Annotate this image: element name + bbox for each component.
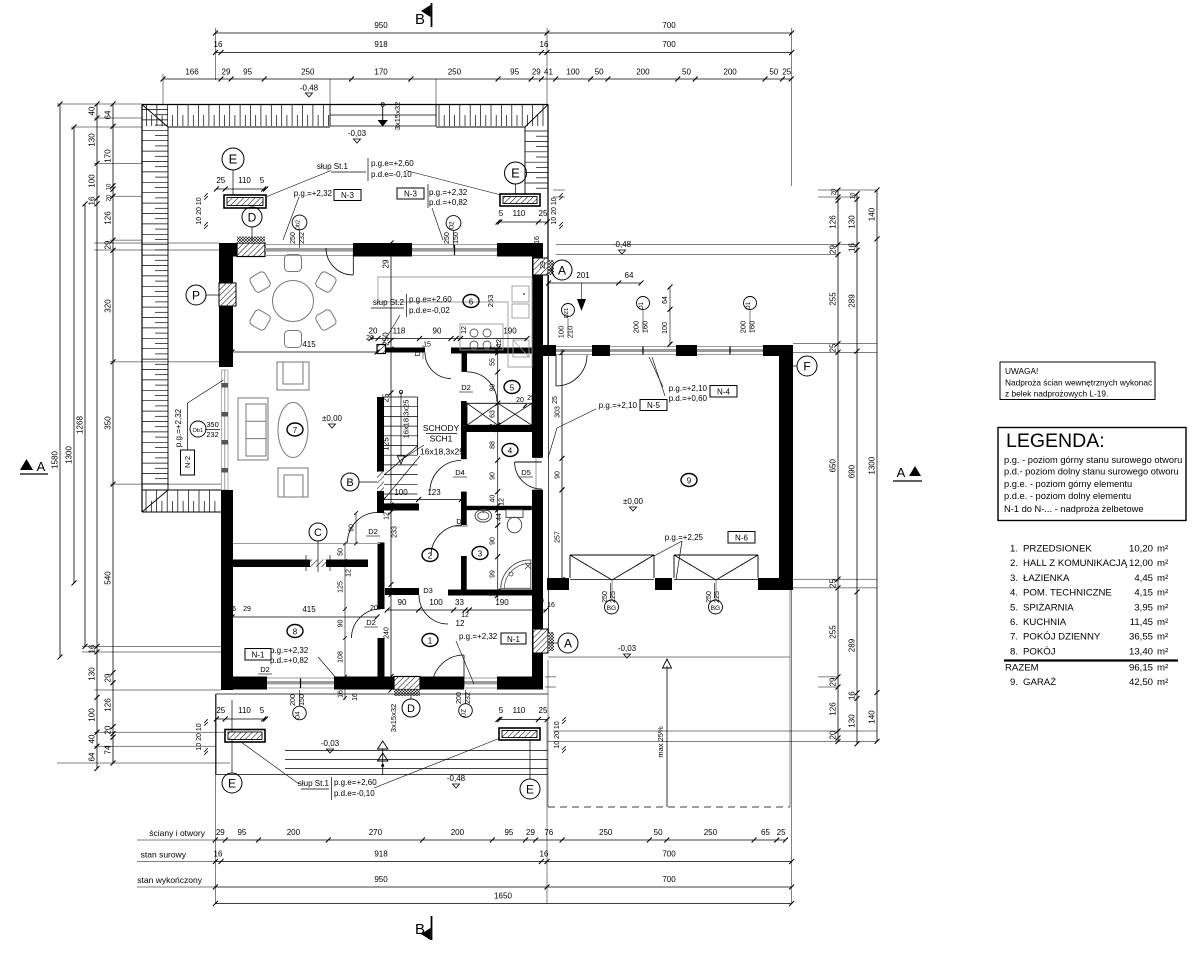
dims bottom-right pillar 5 110 25: [498, 719, 547, 721]
armchair north: [277, 362, 309, 390]
svg-text:250: 250: [444, 232, 451, 244]
axis marker C: [309, 523, 327, 541]
room label 8: [287, 625, 303, 638]
bathroom washbasin: [475, 510, 492, 523]
svg-text:16: 16: [214, 850, 223, 859]
svg-text:O4: O4: [296, 711, 302, 720]
crosshatch SE pillar: [548, 632, 554, 651]
svg-text:F: F: [803, 359, 810, 373]
svg-text:12: 12: [456, 619, 465, 628]
svg-text:90: 90: [490, 537, 497, 545]
svg-text:9.: 9.: [1010, 677, 1018, 688]
svg-text:250: 250: [290, 232, 297, 244]
svg-text:11,45: 11,45: [1130, 617, 1153, 628]
svg-text:E: E: [228, 776, 236, 790]
svg-text:m²: m²: [1157, 632, 1169, 643]
svg-text:stan surowy: stan surowy: [141, 850, 187, 860]
svg-text:25: 25: [539, 209, 548, 218]
svg-text:słup St.2: słup St.2: [373, 298, 405, 307]
svg-text:z belek nadprożowych L-19.: z belek nadprożowych L-19.: [1005, 389, 1108, 399]
svg-text:POKÓJ DZIENNY: POKÓJ DZIENNY: [1023, 632, 1101, 643]
extension lines top: [214, 28, 216, 80]
wall bathroom north: [466, 506, 532, 510]
svg-text:p.g.=+2,32: p.g.=+2,32: [429, 188, 468, 197]
svg-text:Db2: Db2: [296, 220, 302, 230]
svg-text:100: 100: [88, 708, 97, 722]
svg-text:40: 40: [490, 495, 497, 503]
kitchen cooktop: [460, 324, 503, 350]
svg-text:126: 126: [104, 698, 113, 712]
svg-text:29: 29: [338, 678, 345, 686]
svg-text:DZ1: DZ1: [564, 308, 570, 318]
svg-text:O1: O1: [639, 301, 645, 310]
svg-text:2.: 2.: [1010, 558, 1018, 569]
svg-text:100: 100: [566, 68, 580, 77]
svg-text:20: 20: [107, 194, 113, 201]
svg-text:6.: 6.: [1010, 617, 1018, 628]
svg-text:50: 50: [769, 68, 778, 77]
svg-text:-0,03: -0,03: [321, 739, 340, 748]
svg-text:29: 29: [104, 673, 113, 682]
axis marker P: [186, 285, 206, 305]
roof band corner diagonals: [142, 105, 168, 128]
svg-text:POKÓJ: POKÓJ: [1023, 646, 1056, 657]
svg-text:16: 16: [540, 40, 549, 49]
label N-2 box rotated with leader: [181, 450, 195, 475]
svg-text:16x18,3x25: 16x18,3x25: [420, 447, 464, 457]
axis marker F: [797, 356, 817, 376]
svg-text:10: 10: [851, 192, 857, 199]
door D4 arc: [430, 461, 461, 492]
svg-text:125: 125: [382, 437, 391, 451]
driveway dashed boundary: [548, 806, 790, 808]
svg-text:88: 88: [490, 441, 497, 449]
svg-text:E: E: [511, 166, 520, 181]
svg-text:1300: 1300: [65, 446, 74, 464]
svg-text:650: 650: [829, 458, 838, 472]
pillar hatched at D axis on north wall: [237, 243, 265, 257]
svg-text:GARAŻ: GARAŻ: [1023, 677, 1056, 688]
svg-text:10 20 10: 10 20 10: [554, 721, 561, 748]
svg-text:16: 16: [848, 691, 857, 700]
svg-text:4,45: 4,45: [1134, 573, 1153, 584]
svg-text:25: 25: [829, 579, 838, 588]
svg-text:D3: D3: [423, 586, 433, 595]
svg-text:20: 20: [104, 725, 113, 734]
stairs break line: [384, 446, 418, 475]
dim line garage 201 64: [549, 282, 642, 284]
wall west exterior upper: [219, 243, 233, 367]
svg-text:5: 5: [499, 706, 504, 715]
terrace south band with hatch: [142, 489, 221, 491]
svg-text:m²: m²: [1157, 646, 1169, 657]
svg-text:-0,48: -0,48: [447, 774, 466, 783]
svg-text:50: 50: [682, 68, 691, 77]
svg-text:20: 20: [369, 327, 378, 336]
svg-text:m²: m²: [1157, 588, 1169, 599]
label N-1 room 8: [245, 649, 271, 661]
extension lines right: [818, 189, 877, 191]
svg-text:350: 350: [206, 420, 219, 429]
garage north wall pier 1: [592, 345, 610, 356]
svg-text:SPIŻARNIA: SPIŻARNIA: [1023, 602, 1074, 613]
svg-text:140: 140: [868, 207, 877, 221]
svg-text:25: 25: [527, 395, 535, 402]
svg-text:E: E: [526, 782, 534, 796]
roof overhang outline band: [142, 104, 548, 106]
wall room4 west: [461, 432, 467, 459]
room label 1: [422, 634, 438, 647]
svg-text:100: 100: [429, 598, 443, 607]
svg-text:1650: 1650: [494, 892, 512, 901]
svg-text:130: 130: [88, 667, 97, 681]
glass door Db2 in north wall: [265, 244, 353, 246]
svg-text:240: 240: [384, 627, 391, 639]
svg-text:90: 90: [349, 524, 356, 532]
wall below D4 door: [461, 492, 467, 525]
svg-text:160: 160: [641, 321, 650, 334]
svg-text:160: 160: [748, 321, 757, 334]
svg-text:20: 20: [516, 397, 524, 404]
dimension column left 1300: [73, 127, 75, 583]
axis marker B: [341, 473, 359, 491]
svg-text:D: D: [248, 210, 257, 224]
svg-text:p.d.e=-0,10: p.d.e=-0,10: [334, 789, 375, 798]
wall east exterior lower: [532, 490, 543, 688]
svg-text:8.: 8.: [1010, 646, 1018, 657]
label N-3 right with leader: [397, 188, 424, 199]
svg-text:SCHODY: SCHODY: [423, 423, 460, 433]
svg-text:44: 44: [496, 513, 503, 521]
wall stairwell west: [377, 397, 384, 513]
svg-text:50: 50: [654, 828, 663, 837]
garage south wall block west: [547, 578, 569, 590]
wall south exterior east of D pillar: [420, 677, 464, 690]
svg-text:D2: D2: [461, 383, 471, 392]
svg-text:±0,00: ±0,00: [322, 414, 343, 423]
svg-text:255: 255: [829, 292, 838, 306]
garage east wall: [779, 345, 793, 588]
sofa living room: [238, 398, 268, 460]
svg-text:110: 110: [238, 176, 251, 185]
svg-text:p.d.=+0,60: p.d.=+0,60: [669, 394, 708, 403]
axis marker E bottom-left: [222, 773, 242, 793]
svg-text:64: 64: [88, 752, 97, 761]
room label 5: [504, 381, 520, 394]
svg-text:130: 130: [848, 215, 857, 229]
svg-text:25: 25: [216, 176, 225, 185]
svg-text:N-4: N-4: [717, 388, 730, 397]
svg-text:N-2: N-2: [183, 456, 192, 468]
svg-text:16: 16: [228, 606, 236, 613]
door Db2 swing arc: [326, 248, 353, 275]
door D5 gap in east wall: [533, 458, 542, 491]
svg-text:10: 10: [107, 183, 113, 190]
svg-text:D4: D4: [455, 468, 465, 477]
svg-text:p.g.e=+2,60: p.g.e=+2,60: [371, 159, 414, 168]
svg-text:BG: BG: [607, 605, 616, 612]
svg-text:95: 95: [510, 68, 519, 77]
wall west exterior lower: [221, 490, 233, 690]
wall north exterior segment middle: [353, 243, 412, 257]
svg-text:95: 95: [504, 828, 513, 837]
door D2 przedsionek-room8 arc: [352, 609, 381, 638]
wall below stairs: [384, 504, 419, 511]
dim line kitchen chain: [371, 338, 527, 340]
dimension column left mid: [96, 104, 98, 769]
door D2 spizarnia arc: [467, 372, 497, 402]
kitchen appliance below sink: [513, 340, 529, 357]
svg-text:p.g.=+2,10: p.g.=+2,10: [669, 384, 708, 393]
dimension chain top row 16/918/16/700: [215, 52, 791, 54]
wall spizarnia shelves bottom: [461, 425, 532, 432]
dimension column right detail: [837, 190, 839, 742]
wall kitchen south west part: [385, 348, 425, 353]
svg-text:O2: O2: [450, 221, 456, 230]
column slup St.2 at kitchen wall: [377, 345, 386, 354]
svg-text:55: 55: [490, 358, 497, 366]
svg-text:200: 200: [287, 828, 301, 837]
driveway edge lines: [548, 656, 790, 658]
svg-text:10,20: 10,20: [1129, 544, 1153, 555]
svg-text:64: 64: [625, 271, 634, 280]
svg-text:130: 130: [88, 133, 97, 147]
svg-text:N-6: N-6: [735, 534, 748, 543]
wall south exterior segment east corner: [497, 677, 543, 690]
wall west of shelves: [461, 401, 467, 425]
svg-text:700: 700: [662, 21, 676, 30]
svg-text:50: 50: [338, 548, 345, 556]
svg-text:p.g. - poziom górny stanu suro: p.g. - poziom górny stanu surowego otwor…: [1004, 455, 1182, 465]
svg-text:289: 289: [848, 294, 857, 308]
svg-text:123: 123: [427, 488, 441, 497]
svg-text:140: 140: [868, 710, 877, 724]
axis marker A bottom: [558, 633, 578, 653]
svg-text:12: 12: [346, 569, 353, 577]
svg-text:95: 95: [243, 68, 252, 77]
door D3 arc: [419, 595, 448, 624]
axis marker E bottom-right: [520, 779, 540, 799]
roof band hatch right: [525, 130, 548, 132]
kitchen sink: [512, 286, 529, 302]
svg-text:33: 33: [455, 598, 464, 607]
wall north exterior segment east: [497, 243, 543, 257]
svg-text:m²: m²: [1157, 544, 1169, 555]
label O1 west fraction rotated: [637, 297, 650, 310]
svg-text:E: E: [229, 152, 238, 167]
svg-text:918: 918: [374, 850, 388, 859]
svg-text:12: 12: [490, 589, 497, 597]
svg-text:29: 29: [526, 828, 535, 837]
svg-text:170: 170: [104, 149, 113, 163]
svg-text:250: 250: [599, 828, 613, 837]
svg-text:125: 125: [338, 581, 345, 593]
svg-text:p.d.e=-0,10: p.d.e=-0,10: [371, 170, 412, 179]
svg-text:stan wykończony: stan wykończony: [137, 875, 202, 885]
dimension chain bottom stan wykonczony: [215, 886, 791, 888]
svg-text:200: 200: [636, 68, 650, 77]
svg-text:10 20 10: 10 20 10: [551, 197, 558, 224]
svg-text:950: 950: [374, 875, 388, 884]
axis marker D top: [242, 207, 262, 227]
bathroom toilet: [506, 510, 523, 518]
svg-text:5: 5: [510, 384, 515, 393]
svg-text:1: 1: [428, 637, 433, 646]
dim col room8 west 50/12/125/90/108/29/16: [344, 544, 346, 701]
svg-text:1300: 1300: [868, 456, 877, 474]
svg-text:90: 90: [338, 620, 345, 628]
shower tray quarter round: [501, 560, 531, 588]
svg-text:12: 12: [461, 326, 468, 334]
svg-text:p.d.=+0,82: p.d.=+0,82: [270, 656, 309, 665]
wall C axis room8 north: [232, 560, 368, 568]
svg-text:N-1: N-1: [252, 651, 265, 660]
svg-text:200: 200: [739, 321, 748, 334]
dimension column left 1580: [59, 104, 61, 657]
svg-text:LEGENDA:: LEGENDA:: [1006, 430, 1105, 452]
svg-text:8: 8: [293, 628, 298, 637]
entrance door DZ swing: [463, 655, 465, 687]
roof band hatch top: [146, 105, 148, 127]
svg-text:41: 41: [544, 68, 553, 77]
wall south exterior segment west: [221, 677, 267, 690]
label Db2 door fraction rotated: [292, 215, 307, 230]
kitchen counter L-shape: [378, 277, 532, 367]
stairs treads SCH1: [384, 396, 418, 398]
svg-text:20: 20: [370, 605, 378, 612]
svg-text:90: 90: [555, 471, 562, 479]
svg-text:700: 700: [662, 875, 676, 884]
svg-text:B: B: [415, 11, 425, 28]
label DZ1 fraction rotated garage: [562, 304, 575, 317]
svg-text:1.: 1.: [1010, 544, 1018, 555]
dimension chain bottom stan surowy: [215, 861, 791, 863]
svg-text:4,15: 4,15: [1134, 588, 1153, 599]
UWAGA note box: [1000, 362, 1155, 400]
hatch mark at C axis wall: [310, 560, 326, 568]
svg-text:110: 110: [513, 706, 526, 715]
svg-text:700: 700: [662, 40, 676, 49]
svg-text:3,95: 3,95: [1134, 602, 1153, 613]
svg-text:9: 9: [687, 477, 692, 486]
svg-text:16: 16: [540, 850, 549, 859]
door D2 hall-living arc: [348, 513, 378, 543]
svg-text:700: 700: [662, 850, 676, 859]
svg-text:N-1: N-1: [507, 635, 520, 644]
axis marker D bottom: [402, 699, 420, 717]
svg-text:100: 100: [394, 488, 408, 497]
porch steps 3x15x32 lines: [285, 750, 548, 752]
svg-text:KUCHNIA: KUCHNIA: [1023, 617, 1067, 628]
svg-text:350: 350: [104, 416, 113, 430]
svg-text:p.d.- poziom dolny stanu surow: p.d.- poziom dolny stanu surowego otworu: [1004, 467, 1179, 477]
garage door DZ1: [556, 346, 592, 348]
svg-text:p.g.=+2,32: p.g.=+2,32: [174, 408, 183, 447]
garage north wall segment at house: [543, 345, 556, 356]
svg-text:D2: D2: [260, 665, 270, 674]
pillar slup St.1 bottom-right: [499, 728, 540, 740]
door D2 kitchen swing arc: [425, 353, 451, 379]
dim line room8 415: [232, 616, 377, 618]
dim col east wall 303/90/257: [561, 349, 563, 588]
door D1 arc: [431, 525, 462, 556]
svg-text:29: 29: [532, 68, 541, 77]
svg-text:A: A: [37, 459, 46, 474]
pillar hatched SE A axis: [533, 629, 548, 653]
svg-text:16: 16: [338, 690, 345, 698]
garage door DZ1 swing arc: [555, 355, 557, 386]
svg-text:108: 108: [338, 651, 345, 663]
svg-text:270: 270: [369, 828, 383, 837]
svg-text:12: 12: [461, 612, 469, 619]
dining chairs: [285, 255, 302, 272]
svg-text:76: 76: [544, 828, 553, 837]
svg-text:N-1 do N-... - nadproża żelbet: N-1 do N-... - nadproża żelbetowe: [1004, 504, 1144, 514]
svg-text:5: 5: [260, 706, 265, 715]
svg-text:7.: 7.: [1010, 632, 1018, 643]
wall east exterior upper: [532, 243, 543, 458]
svg-text:200: 200: [723, 68, 737, 77]
roof band hatch left: [142, 109, 168, 111]
svg-text:320: 320: [104, 299, 113, 313]
window O2 in north wall: [412, 244, 497, 246]
svg-text:263: 263: [486, 295, 495, 308]
coffee table oval: [278, 403, 308, 458]
svg-text:słup St.1: słup St.1: [298, 779, 330, 788]
svg-text:13,40: 13,40: [1129, 646, 1153, 657]
svg-text:20: 20: [832, 188, 838, 195]
svg-text:16: 16: [534, 236, 541, 244]
driveway slope arrow max 25%: [666, 666, 668, 807]
garage north wall pier 2: [676, 345, 697, 356]
svg-text:A: A: [897, 465, 906, 480]
door D5 leaf and arc: [515, 461, 542, 463]
svg-text:B: B: [346, 477, 353, 489]
svg-text:D2: D2: [415, 347, 422, 356]
svg-text:1580: 1580: [51, 451, 60, 469]
dimension column left 1268: [84, 204, 86, 647]
svg-text:16: 16: [848, 243, 857, 252]
dim line przedsionek 90 100 33: [387, 609, 546, 611]
svg-text:Nadproża ścian wewnętrznych wy: Nadproża ścian wewnętrznych wykonać: [1005, 378, 1152, 388]
level marker triangle below 201 dim: [577, 299, 586, 311]
crosshatch strip above D pillar: [237, 237, 265, 244]
svg-text:p.g.e=+2,60: p.g.e=+2,60: [409, 295, 452, 304]
svg-text:303: 303: [555, 406, 562, 418]
svg-text:232: 232: [206, 430, 219, 439]
svg-text:100: 100: [662, 322, 669, 334]
svg-text:90: 90: [398, 598, 407, 607]
svg-text:100: 100: [88, 174, 97, 188]
svg-text:7: 7: [293, 426, 298, 435]
svg-text:289: 289: [848, 638, 857, 652]
wall north exterior segment west: [219, 243, 265, 257]
svg-text:29: 29: [384, 679, 391, 687]
svg-text:p.g.e=+2,60: p.g.e=+2,60: [334, 778, 377, 787]
svg-text:250: 250: [382, 332, 391, 346]
svg-text:90: 90: [433, 327, 442, 336]
dimension chain top row 950/700: [215, 32, 791, 34]
svg-text:232: 232: [299, 232, 306, 244]
svg-text:P: P: [192, 288, 200, 302]
svg-text:p.d.e=-0,02: p.d.e=-0,02: [409, 306, 450, 315]
dim col mid 12/233/12/240/29: [390, 393, 392, 690]
entrance steps strip in top band 3x15x32: [329, 105, 331, 127]
svg-text:233: 233: [392, 526, 399, 538]
svg-text:HALL Z KOMUNIKACJĄ: HALL Z KOMUNIKACJĄ: [1023, 558, 1128, 569]
armchair south: [278, 468, 308, 497]
svg-text:90: 90: [490, 384, 497, 392]
